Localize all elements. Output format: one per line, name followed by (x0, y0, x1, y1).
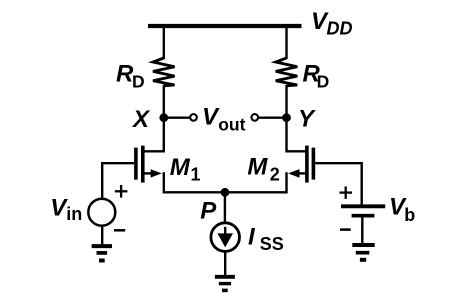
svg-text:M: M (170, 154, 191, 181)
current source ISS circle (211, 223, 240, 252)
svg-text:Y: Y (298, 105, 316, 132)
wire battery to ground (361, 216, 363, 245)
svg-text:b: b (404, 205, 415, 225)
node Y junction dot (282, 113, 291, 122)
label M1 (170, 154, 201, 184)
svg-text:D: D (132, 72, 145, 92)
label M2 (247, 154, 279, 185)
svg-text:SS: SS (260, 234, 284, 254)
VDD rail (148, 24, 302, 28)
transistor M2 gate bar (312, 148, 316, 180)
ground (below Vb) (352, 245, 374, 260)
svg-text:X: X (131, 106, 151, 133)
label ISS (248, 223, 284, 254)
svg-text:1: 1 (191, 164, 201, 184)
svg-text:D: D (317, 72, 330, 92)
source Vin circle (88, 199, 115, 226)
terminal circle left (Vout+) (190, 114, 197, 121)
wire rail to left resistor (163, 26, 165, 59)
minus sign (Vin) (114, 229, 125, 232)
wire resistor RD1 to node X to M1 drain (143, 85, 164, 151)
wire M1 gate down to Vin source (101, 162, 103, 198)
label RD1 (116, 60, 145, 91)
wire current source to ground (224, 252, 226, 277)
plus sign (Vb) (340, 186, 353, 199)
plus sign (Vin) (115, 185, 128, 198)
wire M2 gate to battery (315, 163, 362, 206)
label Vb (389, 193, 415, 225)
battery Vb top plate (341, 204, 385, 208)
transistor M1 gate bar (134, 148, 138, 180)
label RD2 (303, 60, 330, 91)
wire node X to left output terminal (164, 116, 191, 118)
node P junction dot (221, 188, 230, 197)
battery Vb bottom plate (352, 214, 375, 218)
resistor RD1 zigzag (153, 58, 175, 86)
svg-text:M: M (247, 154, 268, 181)
wire resistor RD2 to node Y to M2 drain (287, 85, 307, 151)
wire common source rail (M1 source to M2 source through node P) (164, 191, 287, 193)
label VDD (311, 8, 353, 39)
transistor M1 source wire with arrow (143, 169, 164, 193)
transistor M2 source wire with arrow (287, 169, 307, 193)
wire rail to right resistor (285, 26, 287, 59)
wire Vin to ground (101, 226, 103, 246)
ground (below Vin) (92, 246, 112, 260)
current source ISS arrow (217, 227, 233, 247)
ground (below ISS) (215, 277, 235, 291)
terminal circle right (Vout-) (252, 114, 259, 121)
svg-text:in: in (66, 204, 82, 224)
transistor M1 channel bar (141, 146, 145, 183)
minus sign (Vb) (340, 228, 351, 231)
wire right output terminal to node Y (258, 116, 287, 118)
svg-text:out: out (218, 114, 245, 134)
node X junction dot (159, 113, 168, 122)
resistor RD2 zigzag (276, 58, 298, 86)
wire M1 gate (102, 162, 134, 164)
wire node P to current source (224, 192, 226, 221)
svg-text:2: 2 (270, 164, 280, 184)
svg-text:P: P (200, 197, 217, 224)
transistor M2 channel bar (305, 146, 309, 183)
label Vout (202, 104, 246, 135)
label Vin (50, 194, 82, 224)
svg-text:DD: DD (327, 19, 353, 39)
